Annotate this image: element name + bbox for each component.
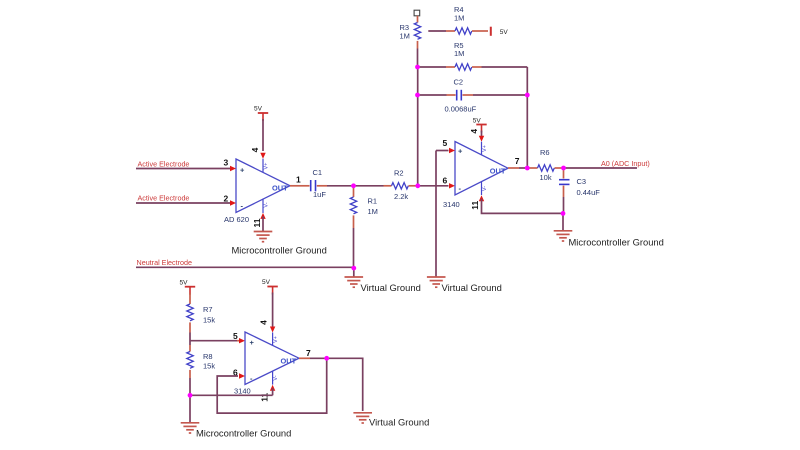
wire tee to U3 pin5 [190, 340, 237, 342]
svg-text:V+: V+ [273, 336, 279, 343]
resistor R6 [529, 148, 564, 182]
svg-text:3140: 3140 [234, 386, 251, 395]
U3 pin6 arrow [239, 373, 245, 378]
resistor R5 [418, 41, 527, 70]
svg-text:4: 4 [259, 320, 269, 325]
wire pin5 down to virtual ground [435, 151, 437, 278]
capacitor C1 [301, 168, 328, 199]
resistor R7 [187, 293, 216, 333]
svg-text:Active Electrode: Active Electrode [138, 159, 190, 168]
svg-text:V+: V+ [263, 163, 269, 170]
wire U2 pin11 down and right [482, 199, 564, 214]
wire junction to ground stem [353, 268, 355, 277]
U1 pin11 stub [262, 199, 264, 213]
svg-text:Virtual Ground: Virtual Ground [361, 282, 421, 293]
wire R3 to junction [417, 49, 419, 68]
op-amp U2 3140 triangle [443, 142, 508, 210]
svg-text:2.2k: 2.2k [394, 192, 408, 201]
wire U2 out to junction [519, 167, 529, 169]
svg-text:2: 2 [224, 194, 229, 204]
svg-text:C1: C1 [313, 168, 323, 177]
wire R1 to virtual ground [353, 228, 355, 268]
wire 5V to U3 pin4 [272, 293, 274, 327]
svg-text:11: 11 [470, 201, 480, 210]
svg-text:V+: V+ [482, 145, 488, 152]
svg-text:Microcontroller Ground: Microcontroller Ground [232, 244, 327, 255]
svg-text:+: + [240, 166, 245, 175]
svg-text:V-: V- [263, 202, 269, 207]
U1 pin4 arrow [260, 153, 265, 159]
power 5V terminal U1 [254, 105, 268, 121]
svg-text:7: 7 [515, 156, 520, 166]
junction C3-pin11 [561, 211, 566, 216]
svg-text:1M: 1M [368, 207, 378, 216]
svg-text:+: + [250, 338, 255, 347]
svg-text:1: 1 [296, 174, 301, 184]
svg-text:A0 (ADC Input): A0 (ADC Input) [601, 159, 650, 168]
ground virtual U2 [427, 277, 446, 287]
U1 pin4 stub [262, 159, 264, 173]
U2 pin11 arrow [479, 195, 484, 201]
U3 pin5 arrow [239, 338, 245, 343]
svg-text:1uF: 1uF [313, 190, 326, 199]
svg-text:Microcontroller Ground: Microcontroller Ground [569, 237, 664, 248]
U1 pin3 arrow [230, 166, 236, 171]
U3 pin11 arrow [270, 385, 275, 391]
junction U2 output [525, 166, 530, 171]
wire U2 pin5 [436, 150, 449, 152]
svg-text:Neutral Electrode: Neutral Electrode [137, 258, 193, 267]
U3 pin4 stub [272, 333, 274, 346]
svg-text:V-: V- [273, 375, 279, 380]
U2 pin4 stub [481, 142, 483, 155]
svg-text:3140: 3140 [443, 200, 460, 209]
svg-text:R8: R8 [203, 352, 213, 361]
svg-text:0.44uF: 0.44uF [577, 188, 601, 197]
U3 pin11 stub [272, 371, 274, 384]
junction R2-feedback-pin6 [415, 183, 420, 188]
wire R8 to junction [189, 378, 191, 395]
svg-text:6: 6 [443, 175, 448, 185]
svg-text:5V: 5V [262, 279, 271, 286]
power 5V terminal U3 [262, 279, 278, 295]
junction C2 left [415, 93, 420, 98]
U3 pin4 arrow [270, 327, 275, 333]
svg-text:11: 11 [252, 218, 262, 227]
wire C3 to junction [563, 197, 565, 213]
junction C2 right [525, 93, 530, 98]
svg-text:OUT: OUT [490, 166, 506, 175]
wire U1 pin11 to ground [262, 217, 264, 232]
U2 pin5 arrow [449, 148, 455, 153]
svg-text:5V: 5V [473, 118, 482, 125]
U3 pin5 lead [237, 340, 239, 342]
svg-text:OUT: OUT [281, 356, 297, 365]
wire U3 pin6 feedback [217, 358, 327, 413]
svg-text:15k: 15k [203, 361, 215, 370]
junction C1-R1-R2 [351, 183, 356, 188]
op-amp U1 AD620 triangle [224, 159, 290, 224]
resistor R1 [350, 186, 378, 228]
wire 5V to U1 pin4 [262, 119, 264, 151]
svg-text:R7: R7 [203, 305, 213, 314]
svg-text:7: 7 [306, 348, 311, 358]
wire U3 pin11 to junction [272, 388, 274, 395]
wire junction to ground [562, 213, 564, 230]
wire pin11 horizontal [190, 394, 273, 396]
wire pin2 input [136, 202, 230, 204]
svg-text:5: 5 [233, 331, 238, 341]
svg-text:1M: 1M [454, 49, 464, 58]
ground microcontroller U1 [254, 232, 273, 242]
svg-text:C3: C3 [577, 177, 587, 186]
U2 pin4 arrow [479, 136, 484, 142]
wire neutral electrode [136, 266, 354, 268]
wire pin3 input [136, 168, 230, 170]
junction R3-R5 [415, 65, 420, 70]
capacitor C3 [559, 168, 600, 197]
svg-text:3: 3 [224, 157, 229, 167]
svg-text:5V: 5V [254, 105, 263, 112]
svg-text:5: 5 [443, 138, 448, 148]
svg-text:R6: R6 [540, 148, 550, 157]
svg-text:5V: 5V [500, 29, 509, 36]
wire feedback right vertical [526, 67, 528, 168]
svg-text:15k: 15k [203, 315, 215, 324]
svg-text:1M: 1M [454, 13, 464, 22]
svg-text:4: 4 [469, 129, 479, 134]
ground virtual U3 [353, 413, 372, 423]
svg-text:AD 620: AD 620 [224, 215, 249, 224]
U2 output lead [508, 167, 519, 169]
svg-text:C2: C2 [454, 77, 464, 86]
power 5V terminal R7 [180, 280, 196, 295]
svg-text:V-: V- [482, 186, 488, 191]
svg-text:0.0068uF: 0.0068uF [445, 104, 477, 113]
power 5V terminal R4 [491, 27, 509, 37]
svg-text:Virtual Ground: Virtual Ground [369, 417, 429, 428]
svg-text:R2: R2 [394, 168, 404, 177]
resistor R4 [428, 5, 488, 34]
wire R7 to tee [189, 333, 191, 346]
wire C1 to R2 [327, 185, 384, 187]
svg-text:5V: 5V [180, 280, 189, 287]
wire U3 out to virtual ground [310, 358, 363, 411]
power 5V terminal U2 [473, 118, 487, 133]
svg-text:Active Electrode: Active Electrode [138, 194, 190, 203]
svg-text:1M: 1M [400, 31, 410, 40]
wire junction to ground [189, 395, 191, 423]
junction R8-pin11 [188, 393, 193, 398]
U1 pin2 arrow [230, 200, 236, 205]
terminal square R3 top [414, 10, 420, 16]
svg-text:R1: R1 [368, 197, 378, 206]
U1 output lead [290, 185, 301, 187]
junction U3 output [324, 356, 329, 361]
svg-text:Virtual Ground: Virtual Ground [442, 282, 502, 293]
U3 output lead [299, 357, 310, 359]
wire feedback vertical [417, 67, 419, 186]
junction neutral-R1-ground [351, 266, 356, 271]
svg-text:+: + [458, 146, 463, 155]
U2 pin11 stub [481, 182, 483, 195]
ground virtual R1 [345, 277, 364, 287]
svg-text:Microcontroller Ground: Microcontroller Ground [196, 427, 291, 438]
wire 5V to U2 pin4 [481, 131, 483, 137]
resistor R3 [400, 16, 421, 49]
op-amp U3 3140 triangle [234, 332, 299, 395]
resistor R2 [384, 168, 418, 201]
ground microcontroller R8 [181, 423, 200, 433]
svg-text:10k: 10k [540, 173, 552, 182]
U1 pin11 arrow [260, 213, 265, 219]
ground microcontroller C3 [554, 231, 573, 241]
wire R2 to U2 pin6 [418, 185, 449, 187]
wire A0 output [564, 167, 638, 169]
junction R6-C3-A0 [561, 166, 566, 171]
svg-text:11: 11 [260, 392, 270, 401]
svg-text:OUT: OUT [272, 184, 288, 193]
svg-text:4: 4 [250, 147, 260, 152]
resistor R8 [187, 345, 216, 378]
capacitor C2 [418, 77, 527, 113]
U2 pin6 arrow [449, 183, 455, 188]
